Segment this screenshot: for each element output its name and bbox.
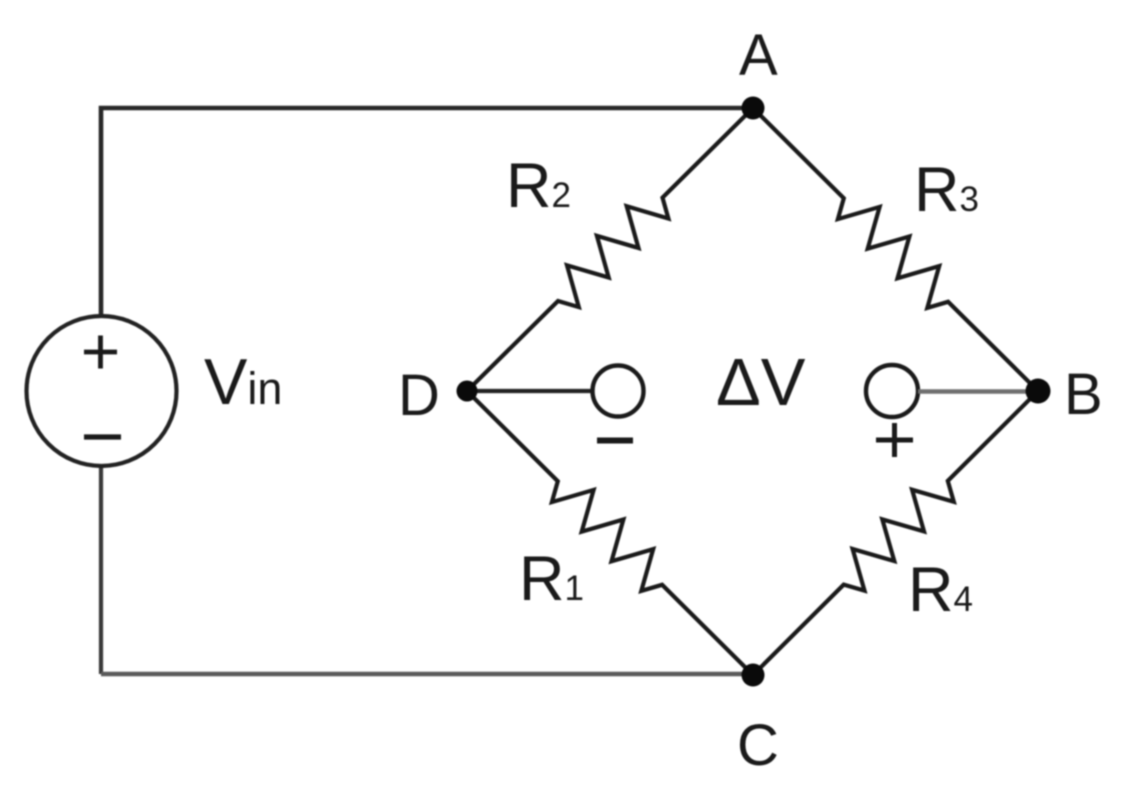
positive probe terminal circle	[866, 365, 918, 417]
node A junction dot	[742, 97, 765, 120]
node C junction dot	[742, 664, 765, 687]
minus sign inside source	[84, 434, 121, 439]
minus sign below negative terminal	[597, 438, 633, 444]
svg-text:ΔV: ΔV	[716, 345, 806, 420]
node D junction dot	[457, 381, 478, 402]
plus sign inside source	[84, 336, 117, 369]
wire bottom: to node C	[101, 672, 753, 676]
wire top: source positive to node A	[101, 108, 753, 316]
plus sign below positive terminal	[876, 423, 913, 457]
svg-text:B: B	[1064, 362, 1103, 427]
voltage source Vin circle	[27, 316, 177, 466]
resistor R3 zigzag (A to B)	[753, 108, 1038, 391]
resistor R4 zigzag (C to B)	[753, 391, 1038, 675]
resistor R1 zigzag (D to C)	[467, 391, 753, 675]
wire node D to negative probe terminal	[467, 389, 591, 393]
negative probe terminal circle	[593, 366, 644, 417]
resistor R2 zigzag (D to A)	[467, 108, 753, 391]
svg-text:C: C	[737, 713, 779, 778]
wire positive probe terminal to node B	[918, 389, 1038, 393]
node B junction dot	[1026, 379, 1051, 404]
svg-text:A: A	[739, 23, 778, 88]
wire bottom-left vertical: source negative down	[99, 466, 103, 674]
svg-text:D: D	[398, 363, 440, 428]
